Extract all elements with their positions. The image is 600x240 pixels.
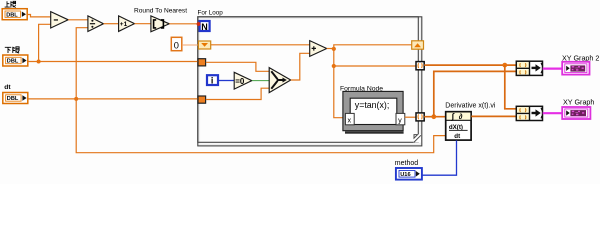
wire method to derivative <box>422 140 457 175</box>
wire shift register to add <box>211 44 310 46</box>
coercion dot on N <box>197 22 201 26</box>
svg-text:i: i <box>211 76 214 86</box>
wire tunnel2 to select f input <box>206 88 270 99</box>
svg-text:Derivative x(t).vi: Derivative x(t).vi <box>445 103 496 110</box>
svg-text:XY Graph: XY Graph <box>563 98 594 107</box>
tunnel right 2 (y array out, indexing) <box>416 113 424 121</box>
terminal XY Graph 2 <box>562 62 589 75</box>
equal to 0? function <box>234 72 252 89</box>
svg-text:y=tan(x);: y=tan(x); <box>355 100 389 110</box>
formula node frame <box>343 91 404 133</box>
formula node y output <box>396 113 405 124</box>
wire tunnel1 to select t input <box>206 62 270 71</box>
formula node text <box>355 100 389 110</box>
wire round to N terminal <box>169 23 198 25</box>
label dt <box>4 84 11 91</box>
wire increment to round <box>135 23 152 25</box>
tunnel left 2 (dt in) <box>198 96 206 103</box>
svg-text:=0: =0 <box>235 77 245 86</box>
select function <box>269 68 291 93</box>
svg-text:For Loop: For Loop <box>198 10 224 17</box>
loop corner notch <box>413 134 421 142</box>
shift register right <box>412 41 424 49</box>
wire add output with junctions <box>327 45 417 118</box>
wire y to tunnel right 2 <box>405 116 416 118</box>
derivative vi <box>446 112 471 140</box>
junction dt branches <box>74 28 446 153</box>
label XY Graph <box>563 98 594 107</box>
terminal 下限 DBL <box>3 55 28 66</box>
formula node x input <box>345 113 354 124</box>
count terminal N <box>200 21 210 32</box>
svg-text:Round To Nearest: Round To Nearest <box>134 8 187 15</box>
wire 下限 horizontal to loop tunnel <box>28 61 199 63</box>
wire select output to add <box>291 53 310 80</box>
iteration terminal i <box>207 75 218 85</box>
wire dt horizontal to loop tunnel <box>28 98 199 100</box>
formula node label <box>340 85 383 92</box>
round to nearest function <box>151 16 169 32</box>
control method U16 <box>396 168 422 180</box>
label XY Graph 2 <box>562 53 599 62</box>
svg-text:DBL: DBL <box>7 59 19 65</box>
svg-text:DBL: DBL <box>7 96 19 102</box>
svg-text:+1: +1 <box>120 21 128 28</box>
wire divide to increment <box>104 23 119 25</box>
terminal 上限 DBL <box>2 9 27 20</box>
terminal XY Graph <box>562 107 590 119</box>
divide function <box>88 16 104 32</box>
tunnel left 1 (下限 in) <box>198 59 206 66</box>
svg-text:y: y <box>398 115 402 124</box>
For Loop label <box>198 10 224 17</box>
label 上限 (glyphs drawn) <box>5 1 16 7</box>
label method <box>395 160 418 167</box>
svg-text:∂: ∂ <box>459 112 463 121</box>
label Derivative x(t).vi <box>445 103 496 110</box>
svg-text:0: 0 <box>174 40 179 50</box>
tunnel right 1 (x array out, indexing) <box>416 62 424 70</box>
svg-text:N: N <box>201 22 208 32</box>
junction 下限 branch <box>37 24 51 63</box>
wire y array to derivative and branch <box>424 71 516 119</box>
svg-text:method: method <box>395 160 418 167</box>
bundle 1 <box>516 61 542 75</box>
label 下限 (glyphs drawn) <box>5 47 19 53</box>
svg-text:dt: dt <box>454 133 460 140</box>
svg-text:dt: dt <box>4 84 11 91</box>
increment function +1 <box>119 16 135 32</box>
svg-text:U16: U16 <box>400 172 410 178</box>
wire x array to bundle1 and branch <box>424 63 516 109</box>
constant 0 <box>171 37 182 50</box>
wire subtract to divide <box>68 19 88 21</box>
svg-text:DBL: DBL <box>6 12 18 18</box>
wire bundle1 to xy graph 2 <box>543 67 563 69</box>
shift register left <box>198 41 210 49</box>
add function <box>310 41 327 57</box>
svg-text:x: x <box>348 115 352 124</box>
wire 0 to left shift register <box>182 44 199 46</box>
wire boolean to select s <box>252 80 270 82</box>
bundle 2 <box>516 106 542 120</box>
for loop frame <box>198 17 422 146</box>
wire 上限 to subtract <box>27 15 51 17</box>
wire derivative output to bundle2 <box>471 115 516 117</box>
wire i to equal zero <box>219 80 235 82</box>
subtract function <box>51 12 68 28</box>
label Round To Nearest <box>134 8 187 15</box>
wire bundle2 to xy graph <box>543 112 563 114</box>
terminal dt DBL <box>3 93 28 104</box>
